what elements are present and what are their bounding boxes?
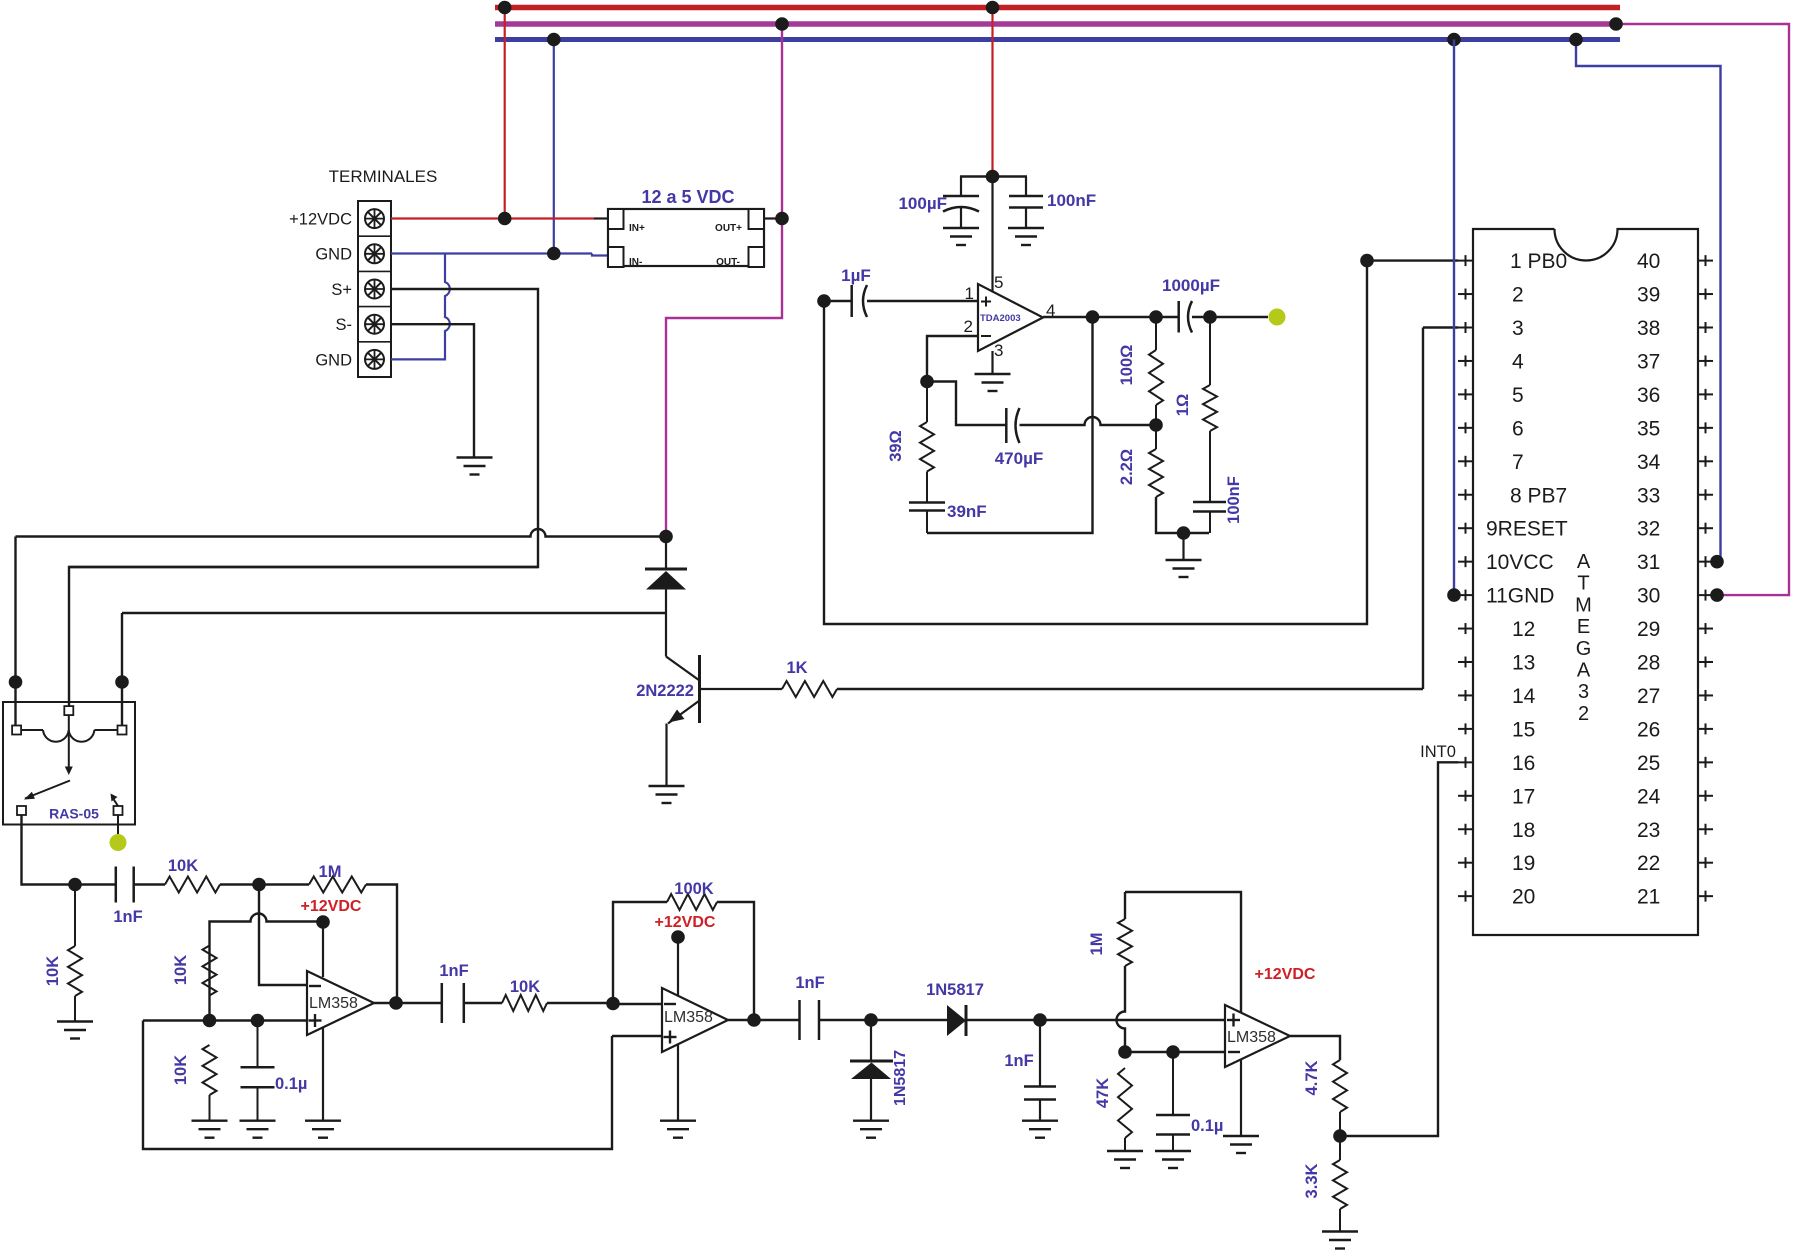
svg-text:IN-: IN- <box>629 257 642 268</box>
svg-text:1 PB0: 1 PB0 <box>1510 250 1567 273</box>
svg-text:18: 18 <box>1512 819 1535 842</box>
svg-text:1M: 1M <box>319 863 342 881</box>
svg-text:470µF: 470µF <box>995 449 1044 468</box>
svg-text:16: 16 <box>1512 752 1535 775</box>
svg-text:5: 5 <box>994 273 1003 292</box>
svg-text:1µF: 1µF <box>841 266 871 285</box>
svg-text:100nF: 100nF <box>1225 476 1243 524</box>
svg-text:100nF: 100nF <box>1047 191 1096 210</box>
svg-text:29: 29 <box>1637 618 1660 641</box>
svg-text:2N2222: 2N2222 <box>636 682 694 700</box>
svg-text:+12VDC: +12VDC <box>301 898 362 915</box>
svg-text:S-: S- <box>336 316 353 334</box>
svg-text:E: E <box>1577 616 1590 638</box>
svg-text:7: 7 <box>1512 451 1524 474</box>
svg-text:0.1µ: 0.1µ <box>1191 1117 1223 1135</box>
svg-text:26: 26 <box>1637 718 1660 741</box>
svg-text:38: 38 <box>1637 317 1660 340</box>
svg-text:1nF: 1nF <box>113 908 142 926</box>
svg-text:GND: GND <box>315 246 352 264</box>
svg-text:1M: 1M <box>1088 933 1106 956</box>
svg-text:IN+: IN+ <box>629 223 645 234</box>
svg-text:1Ω: 1Ω <box>1174 394 1192 416</box>
svg-text:21: 21 <box>1637 886 1660 909</box>
svg-text:1N5817: 1N5817 <box>892 1050 909 1106</box>
svg-text:32: 32 <box>1637 518 1660 541</box>
svg-text:5: 5 <box>1512 384 1524 407</box>
svg-text:20: 20 <box>1512 886 1535 909</box>
svg-text:3: 3 <box>994 341 1003 360</box>
svg-text:3: 3 <box>1512 317 1524 340</box>
svg-text:TERMINALES: TERMINALES <box>329 167 438 186</box>
svg-text:2: 2 <box>1578 703 1589 725</box>
svg-text:9RESET: 9RESET <box>1486 518 1568 541</box>
svg-text:39nF: 39nF <box>947 502 987 521</box>
svg-text:12: 12 <box>1512 618 1535 641</box>
svg-text:10K: 10K <box>172 1055 190 1085</box>
svg-text:OUT-: OUT- <box>716 257 740 268</box>
svg-text:1K: 1K <box>786 659 807 677</box>
svg-text:1nF: 1nF <box>439 962 468 980</box>
svg-text:39: 39 <box>1637 284 1660 307</box>
svg-text:2.2Ω: 2.2Ω <box>1118 449 1136 485</box>
svg-text:10K: 10K <box>168 857 198 875</box>
svg-text:GND: GND <box>315 351 352 369</box>
svg-text:A: A <box>1577 660 1591 682</box>
svg-text:28: 28 <box>1637 652 1660 675</box>
svg-text:3.3K: 3.3K <box>1303 1163 1321 1198</box>
svg-text:27: 27 <box>1637 685 1660 708</box>
svg-text:4.7K: 4.7K <box>1303 1060 1321 1095</box>
svg-text:33: 33 <box>1637 484 1660 507</box>
svg-text:2: 2 <box>964 317 973 336</box>
svg-text:14: 14 <box>1512 685 1536 708</box>
svg-text:0.1µ: 0.1µ <box>275 1075 307 1093</box>
svg-text:13: 13 <box>1512 652 1535 675</box>
svg-text:+12VDC: +12VDC <box>1255 966 1316 983</box>
svg-text:RAS-05: RAS-05 <box>49 806 99 822</box>
svg-text:4: 4 <box>1512 350 1524 373</box>
svg-text:M: M <box>1575 594 1592 616</box>
svg-text:100K: 100K <box>674 880 714 898</box>
svg-text:22: 22 <box>1637 852 1660 875</box>
svg-text:INT0: INT0 <box>1420 743 1456 761</box>
svg-text:10K: 10K <box>44 956 62 986</box>
svg-text:G: G <box>1576 638 1592 660</box>
svg-text:10K: 10K <box>172 955 190 985</box>
svg-text:3: 3 <box>1578 681 1589 703</box>
svg-text:100Ω: 100Ω <box>1118 345 1136 386</box>
svg-text:+12VDC: +12VDC <box>655 914 716 931</box>
svg-text:10K: 10K <box>510 978 540 996</box>
svg-text:2: 2 <box>1512 284 1524 307</box>
svg-text:TDA2003: TDA2003 <box>980 313 1021 324</box>
svg-text:24: 24 <box>1637 785 1661 808</box>
svg-text:6: 6 <box>1512 417 1524 440</box>
svg-text:1000µF: 1000µF <box>1162 276 1220 295</box>
svg-text:35: 35 <box>1637 417 1660 440</box>
svg-text:11GND: 11GND <box>1486 585 1554 608</box>
svg-text:23: 23 <box>1637 819 1660 842</box>
svg-text:15: 15 <box>1512 718 1535 741</box>
svg-text:40: 40 <box>1637 250 1660 273</box>
svg-text:25: 25 <box>1637 752 1660 775</box>
svg-text:S+: S+ <box>331 281 352 299</box>
svg-text:8 PB7: 8 PB7 <box>1510 484 1567 507</box>
svg-text:31: 31 <box>1637 551 1660 574</box>
svg-text:12 a 5 VDC: 12 a 5 VDC <box>641 187 734 207</box>
svg-text:36: 36 <box>1637 384 1660 407</box>
svg-text:30: 30 <box>1637 585 1660 608</box>
svg-text:1nF: 1nF <box>795 974 824 992</box>
svg-text:10VCC: 10VCC <box>1486 551 1554 574</box>
svg-text:LM358: LM358 <box>309 995 358 1012</box>
svg-text:1nF: 1nF <box>1004 1052 1033 1070</box>
svg-text:OUT+: OUT+ <box>715 223 742 234</box>
svg-text:100µF: 100µF <box>898 194 947 213</box>
svg-text:T: T <box>1577 573 1589 595</box>
svg-text:17: 17 <box>1512 785 1535 808</box>
svg-text:47K: 47K <box>1094 1078 1112 1108</box>
svg-text:LM358: LM358 <box>664 1009 713 1026</box>
svg-text:A: A <box>1577 551 1591 573</box>
svg-text:+12VDC: +12VDC <box>289 211 352 229</box>
svg-text:37: 37 <box>1637 350 1660 373</box>
svg-text:39Ω: 39Ω <box>887 430 905 462</box>
svg-text:34: 34 <box>1637 451 1661 474</box>
svg-text:19: 19 <box>1512 852 1535 875</box>
svg-text:1N5817: 1N5817 <box>926 981 984 999</box>
svg-text:LM358: LM358 <box>1227 1029 1276 1046</box>
